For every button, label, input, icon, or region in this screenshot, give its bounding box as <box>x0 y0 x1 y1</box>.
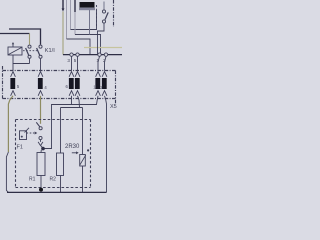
thermal switch upper circle <box>39 127 42 130</box>
relay contact K1/1 right: blade <box>37 48 40 55</box>
svg-text:R1: R1 <box>29 177 36 183</box>
wire: R1 bottom to bus <box>40 176 42 190</box>
wire: supply vertical dark upper part x63 <box>62 0 64 10</box>
socket circle 3 <box>70 53 73 56</box>
chevron pin 5 <box>11 72 16 77</box>
chevron pin 3 <box>69 72 74 77</box>
wire: switch down then jog left to x98.5 and to bus <box>98 23 105 54</box>
relay contact K1/1 left: top circle <box>28 45 31 48</box>
wire: stub above switch <box>103 2 105 10</box>
relay contact K1/1 right: bottom circle <box>39 55 42 58</box>
mechanical link dashes with arrow to switch <box>27 132 35 134</box>
wire: pin 6 down joining y104 line <box>71 96 73 105</box>
wire: node to R1 <box>40 150 42 153</box>
thermal switch blade <box>36 122 40 127</box>
relay coil top stub with arrow <box>12 44 14 47</box>
wire: contact A bottom to node <box>29 59 31 64</box>
svg-text:F1: F1 <box>17 144 23 150</box>
socket circle 1 <box>98 53 101 56</box>
wire: grey vertical x66.5 with corner to x85 <box>66 0 68 39</box>
wire arrowhead on x63 <box>62 8 65 11</box>
chevron below pin 6b <box>75 91 80 96</box>
pin 2 <box>102 78 107 89</box>
chevron below pin 2 <box>102 91 107 96</box>
wire: contact B bottom down <box>40 59 42 71</box>
dash-dot boundary y70.5 <box>3 70 116 72</box>
resistor 2R30 diagonal <box>80 155 86 165</box>
wire: coil bottom down to node <box>13 55 30 64</box>
connector block (black) at top <box>80 2 95 8</box>
chevron below pin 5 <box>11 91 16 96</box>
wire: bus y33.5 left <box>0 33 30 35</box>
switch S upper contact circle <box>102 10 105 13</box>
pin 5 <box>10 78 15 89</box>
wire: to R1 node <box>41 146 43 148</box>
mechanical link dashes from coil to contacts <box>23 50 38 52</box>
wire: 2R30 bottom to bus <box>82 166 84 192</box>
wire: pin 5 down left side (olive section) <box>8 96 13 152</box>
pin 6 <box>69 78 74 89</box>
resistor 2R30 body <box>80 155 86 167</box>
dash-dot boundary y98 <box>3 98 116 100</box>
junction node at R1 top <box>41 147 45 151</box>
wire: dark vertical x75 corner at y34 to x90.5 down to y47 <box>74 0 76 12</box>
wire: switch down to connector chevron <box>40 140 42 142</box>
chevron pin 4 <box>38 72 43 77</box>
dashed box of control unit (bottom left) <box>16 119 91 121</box>
wire: from connector block down to y34.5 <box>89 10 91 35</box>
dash-dot boundary right vertical x115.5 <box>115 71 117 105</box>
junction node on bottom bus <box>39 188 43 192</box>
svg-text:2R30: 2R30 <box>65 144 80 150</box>
wire: R2 bottom to bus <box>60 176 62 193</box>
wire: x60 down to R2 <box>60 108 62 154</box>
svg-text:R2: R2 <box>50 177 57 183</box>
socket circle 2 <box>104 53 107 56</box>
thermal switch lower circle <box>39 136 42 139</box>
chevron below pin 4 <box>38 91 43 96</box>
resistor R1 <box>37 153 45 176</box>
bottom bus wire <box>7 191 107 193</box>
wire: olive vertical x63 down to bus <box>62 12 64 55</box>
wire: light yellow horizontal y47 to right edge <box>84 47 122 49</box>
chevron inside box <box>38 142 43 146</box>
dash-dot boundary left vertical x2.5 <box>2 66 4 99</box>
socket circle 5 <box>76 53 79 56</box>
switch S blade <box>105 12 108 19</box>
switch S lower contact circle <box>102 20 105 23</box>
thermal element lever <box>25 128 30 133</box>
pin 1 <box>95 78 100 89</box>
dash-dot border top right x113.5 <box>113 0 115 27</box>
chevron pin 1 <box>96 72 101 77</box>
wire: pin 2 down to x106.5, down to bottom bus <box>105 96 107 193</box>
chevron below pin 1 <box>96 91 101 96</box>
relay contact K1/1 left: blade <box>26 48 29 55</box>
pin 6b <box>75 78 80 89</box>
wire: x81.5 down to resistor 2R30 <box>82 108 84 155</box>
wire: y107.5 line from x60 to x81.5 <box>61 107 83 109</box>
thermal element F1 box <box>20 131 27 140</box>
wire: left side lower dark section to bottom bus <box>6 152 8 192</box>
wire: pin 6b down joining y107.5 line <box>78 96 80 108</box>
chevron pin 5b <box>75 72 80 77</box>
wire: grey vertical x70.5 corner at y29.5 to x95 down to bus <box>70 0 72 30</box>
pin 4 <box>38 78 43 89</box>
small dot right of 2R30 <box>87 149 89 151</box>
wire: contact B down into lower box (olive) <box>40 96 42 124</box>
svg-text:X5: X5 <box>110 104 117 110</box>
relay coil K1 box <box>8 47 22 55</box>
wire: bus y29 left <box>9 29 41 45</box>
resistor R2 <box>57 153 64 176</box>
bus y55 with socket circles <box>63 54 122 56</box>
relay contact K1/1 left: bottom circle <box>28 55 31 58</box>
wire: beige vertical x29.5 <box>29 34 31 45</box>
svg-text:K1/I: K1/I <box>45 48 55 54</box>
wires from sockets down to boundary <box>71 56 73 70</box>
wire: node down to connector pin 5 <box>12 64 14 71</box>
chevron pin 2 <box>102 72 107 77</box>
chevron below pin 6 <box>69 91 74 96</box>
relay contact K1/1 right: top circle <box>39 45 42 48</box>
wire: pin 1 down, corner left along y104 to x51.5, down to y148.5, to R1 node <box>43 96 98 149</box>
influence arrow at 2R30 <box>72 152 77 154</box>
switch S mechanical dashed link <box>96 5 98 28</box>
